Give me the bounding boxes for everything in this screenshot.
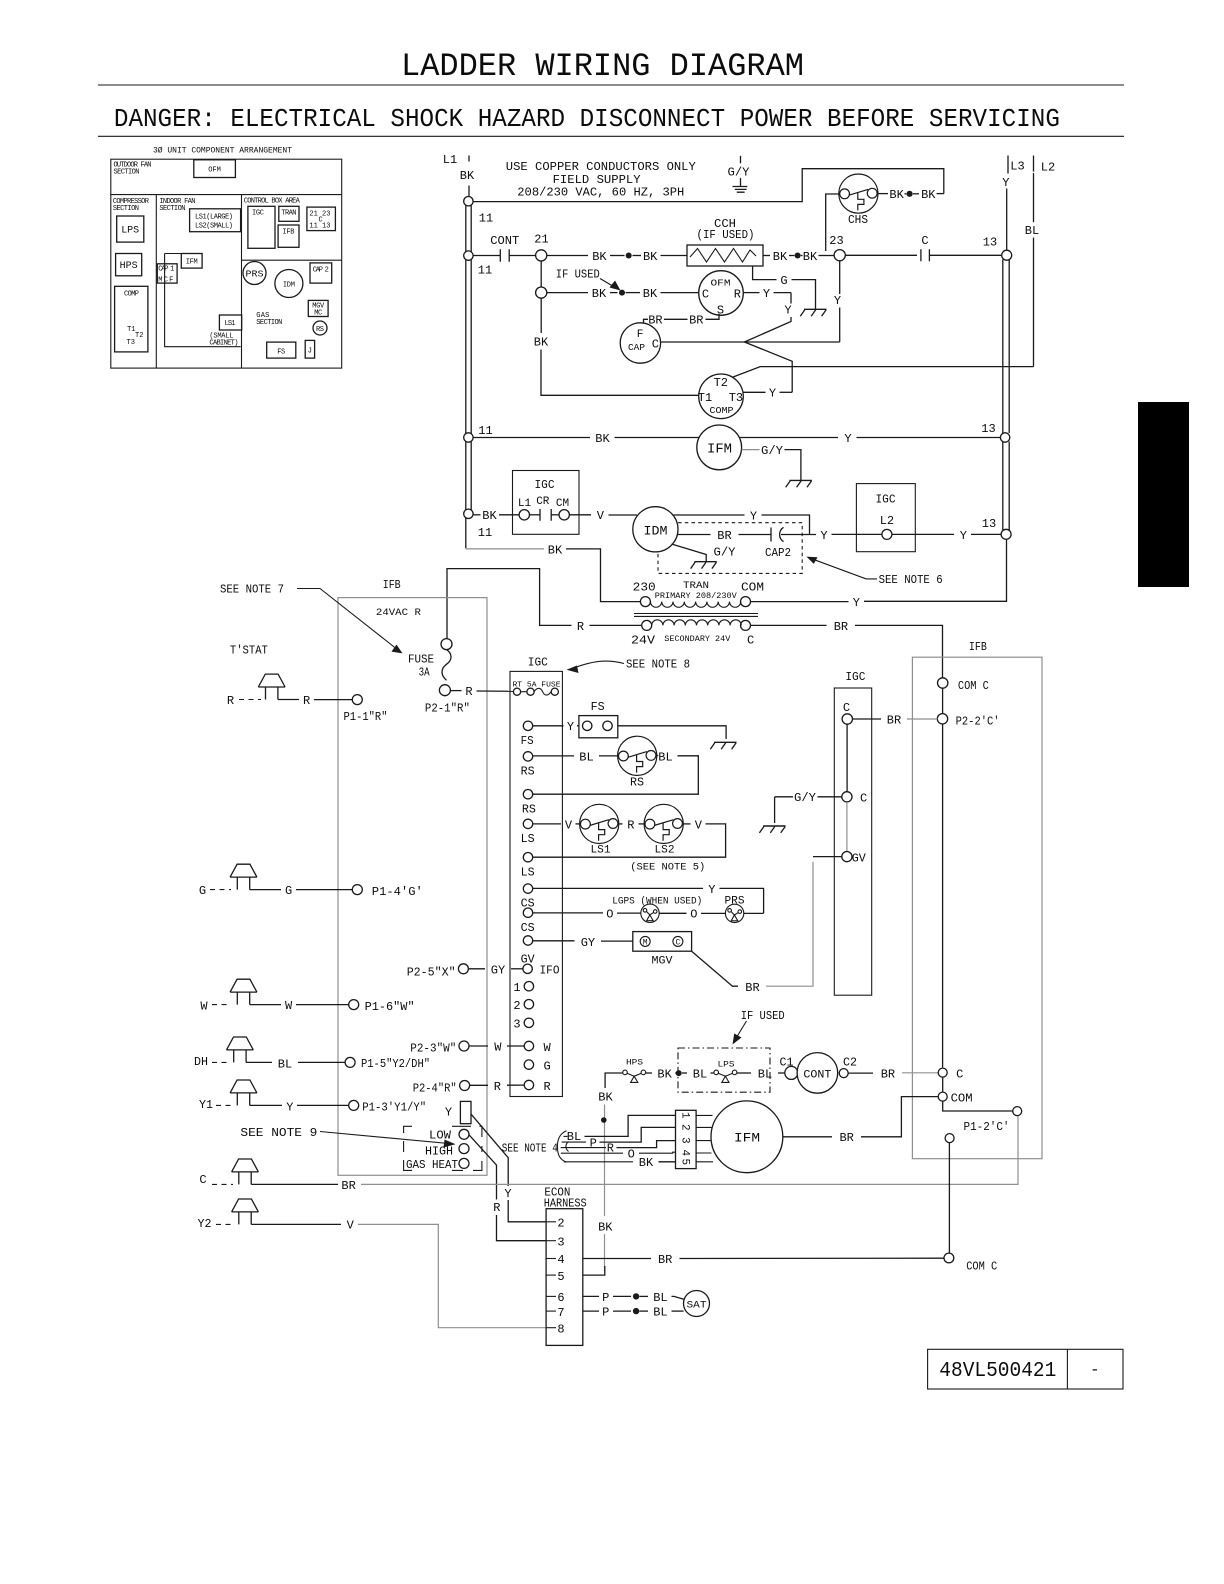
svg-text:2: 2 (679, 1124, 691, 1131)
svg-text:V: V (565, 818, 573, 832)
terminal P1-4"G" (352, 885, 362, 895)
svg-text:208/230 VAC, 60 HZ, 3PH: 208/230 VAC, 60 HZ, 3PH (517, 185, 684, 199)
svg-text:BK: BK (639, 1156, 654, 1170)
svg-text:BK: BK (592, 250, 607, 264)
switch LS1 (580, 804, 619, 843)
wire LS1 to LS2 R (618, 823, 623, 825)
svg-text:13: 13 (982, 517, 996, 531)
svg-text:Y1: Y1 (199, 1098, 213, 1112)
wire harness bundle brace (557, 1131, 566, 1163)
wire C chain down (846, 724, 848, 791)
motor IFM blower (711, 1101, 783, 1173)
svg-text:T3: T3 (729, 391, 743, 405)
svg-text:BK: BK (803, 250, 818, 264)
svg-text:CS: CS (521, 921, 535, 935)
svg-text:C: C (702, 288, 709, 302)
svg-text:M: M (643, 938, 648, 947)
wire CS Y (533, 887, 703, 889)
svg-text:BK: BK (482, 509, 497, 523)
svg-text:BK: BK (657, 1068, 672, 1082)
svg-text:C: C (921, 234, 928, 248)
svg-text:P2-5"X": P2-5"X" (407, 966, 456, 980)
svg-text:TRAN: TRAN (683, 581, 709, 592)
wire Y from node 23 (839, 261, 841, 294)
dashed box CAP2 (658, 523, 802, 574)
svg-text:Y: Y (567, 720, 574, 734)
svg-text:P: P (590, 1136, 597, 1150)
svg-text:IFB: IFB (969, 640, 987, 654)
svg-text:V: V (597, 509, 605, 523)
COMP box (115, 286, 148, 352)
svg-text:6: 6 (557, 1291, 564, 1305)
left rail double (466, 206, 471, 515)
wire L3 down to node 13 (1006, 189, 1008, 251)
wire W (469, 1045, 488, 1047)
svg-text:SECTION: SECTION (113, 205, 139, 213)
svg-text:BK: BK (598, 1221, 613, 1235)
svg-text:COMP: COMP (124, 291, 139, 299)
box IFB left (338, 598, 487, 1176)
relay box IGC L1 CR CM (513, 471, 580, 535)
SECTION: header (98, 48, 1189, 1389)
svg-text:L1: L1 (443, 153, 457, 167)
wire secondary 24V R loop (590, 624, 642, 626)
svg-text:P2-3"W": P2-3"W" (410, 1042, 456, 1056)
terminal P1-2 lower (945, 1134, 954, 1143)
dash-dot box LPS (678, 1048, 770, 1092)
svg-text:F: F (637, 329, 644, 341)
wire harness bundle P (562, 1141, 586, 1143)
svg-text:V: V (695, 818, 703, 832)
blower housing outline (165, 254, 241, 347)
svg-text:W: W (494, 1041, 502, 1055)
svg-text:FUSE: FUSE (408, 653, 434, 667)
svg-text:R: R (494, 1080, 501, 1094)
svg-text:SECTION: SECTION (256, 319, 282, 327)
svg-text:48VL500421: 48VL500421 (939, 1360, 1056, 1383)
terminal LS (523, 819, 532, 828)
svg-text:11: 11 (478, 424, 492, 438)
svg-text:BK: BK (889, 188, 904, 202)
svg-text:G: G (780, 274, 787, 288)
IFM box small (181, 254, 202, 269)
terminal C1 (785, 1066, 798, 1079)
svg-text:5: 5 (679, 1159, 691, 1166)
pin 4 (546, 1258, 556, 1260)
svg-text:C: C (860, 791, 867, 805)
svg-text:G: G (285, 884, 292, 898)
wire node13 down to COM (864, 539, 1007, 601)
svg-text:BK: BK (773, 250, 788, 264)
breaker CHS (839, 174, 878, 213)
capacitor F CAP (620, 323, 660, 363)
FS box small (267, 342, 296, 358)
svg-text:IF USED: IF USED (741, 1009, 785, 1023)
svg-text:G/Y: G/Y (794, 791, 816, 805)
svg-text:HPS: HPS (120, 261, 138, 272)
svg-text:DANGER: ELECTRICAL SHOCK HAZAR: DANGER: ELECTRICAL SHOCK HAZARD DISCONNE… (114, 104, 1060, 134)
svg-text:IGC: IGC (528, 656, 548, 670)
svg-text:1: 1 (513, 981, 520, 995)
pin 6 (546, 1295, 556, 1297)
SECTION: top power (443, 153, 1055, 514)
svg-text:USE COPPER CONDUCTORS ONLY: USE COPPER CONDUCTORS ONLY (506, 160, 696, 174)
svg-text:RS: RS (630, 776, 644, 790)
svg-text:COM: COM (951, 1091, 973, 1105)
wire C to COM (942, 1077, 944, 1092)
wire IDM BR to CAP2 (678, 534, 711, 536)
svg-text:BR: BR (887, 713, 901, 727)
svg-text:2: 2 (557, 1217, 564, 1231)
svg-text:IFB: IFB (283, 229, 295, 237)
svg-text:T2: T2 (135, 332, 143, 340)
wire harness bundle BL (564, 1135, 568, 1137)
svg-text:-: - (1090, 1361, 1100, 1379)
svg-text:COM C: COM C (966, 1260, 997, 1274)
svg-text:3: 3 (557, 1235, 564, 1249)
svg-text:P1-6"W": P1-6"W" (365, 1000, 415, 1014)
svg-text:GAS HEAT: GAS HEAT (406, 1158, 458, 1172)
svg-text:24VAC R: 24VAC R (376, 608, 421, 619)
terminal COM C bottom (944, 1253, 954, 1263)
svg-text:RS: RS (316, 326, 324, 334)
svg-text:SECONDARY 24V: SECONDARY 24V (664, 635, 730, 644)
SECTION: middle (220, 422, 1011, 1175)
svg-text:BR: BR (341, 1179, 355, 1193)
svg-text:PRS: PRS (725, 896, 745, 908)
svg-text:C: C (747, 634, 754, 648)
wire RS BL (533, 755, 574, 757)
svg-text:T2: T2 (714, 376, 728, 390)
wire harness bundle R (561, 1147, 606, 1149)
wire LPS right BL (737, 1072, 751, 1074)
pin 3 (546, 1240, 556, 1242)
node L3 (1007, 156, 1009, 174)
svg-text:IDM: IDM (283, 282, 295, 290)
svg-text:11 13: 11 13 (309, 223, 330, 231)
danger underline (98, 135, 1124, 137)
svg-text:P1-4'G': P1-4'G' (372, 885, 423, 899)
svg-text:Y: Y (750, 509, 757, 523)
compressor COMP (699, 374, 744, 419)
svg-text:CAP 2: CAP 2 (313, 267, 329, 275)
svg-text:BK: BK (534, 336, 549, 350)
svg-text:SECTION: SECTION (159, 205, 185, 213)
connector stubs to IFM (696, 1115, 713, 1161)
wire COM to P1-2 (943, 1101, 1013, 1111)
svg-text:BR: BR (658, 1253, 672, 1267)
svg-text:P1-5"Y2/DH": P1-5"Y2/DH" (361, 1057, 430, 1071)
wire BK from rail to primary (465, 518, 467, 548)
wire pin5 BK (583, 1266, 605, 1275)
dashed box heat stage (404, 1126, 482, 1170)
svg-text:Y: Y (960, 529, 967, 543)
wire harness bundle BK (564, 1161, 633, 1163)
sensor FS box (579, 716, 618, 738)
transformer core (634, 614, 758, 617)
svg-text:IGC: IGC (876, 493, 896, 507)
terminal numbers box (307, 207, 336, 231)
svg-text:BR: BR (717, 529, 731, 543)
terminal R (524, 1080, 533, 1089)
heater CCH (687, 245, 763, 266)
svg-text:3: 3 (679, 1137, 691, 1144)
svg-text:Y: Y (820, 529, 827, 543)
valve MGV box (633, 932, 692, 952)
right rail double lower (1003, 442, 1009, 531)
svg-text:Y: Y (708, 883, 715, 897)
IGC box small (248, 206, 275, 248)
wire C2 BR to C (848, 1072, 873, 1074)
LS1/LS2 box (190, 209, 241, 232)
secondary coil (642, 620, 652, 630)
terminal P2-3"W" (459, 1041, 469, 1051)
terminal P2-2"C" (937, 714, 947, 724)
svg-text:BL: BL (758, 1068, 772, 1082)
svg-text:SEE NOTE 9: SEE NOTE 9 (240, 1126, 317, 1140)
svg-text:C: C (675, 938, 680, 947)
svg-text:IGC: IGC (845, 670, 865, 684)
wire O between (659, 912, 686, 914)
svg-text:T1: T1 (698, 391, 712, 405)
svg-text:R: R (627, 818, 634, 832)
svg-text:CAP 1: CAP 1 (158, 265, 174, 273)
svg-text:(IF USED): (IF USED) (697, 228, 755, 242)
svg-text:3A: 3A (419, 666, 431, 680)
svg-text:LPS: LPS (121, 226, 139, 237)
svg-text:CONT: CONT (490, 234, 519, 248)
svg-text:GY: GY (581, 936, 595, 950)
svg-text:RS: RS (522, 803, 536, 817)
svg-text:LADDER WIRING DIAGRAM: LADDER WIRING DIAGRAM (401, 48, 804, 85)
svg-text:SEE NOTE 6: SEE NOTE 6 (879, 573, 943, 587)
svg-text:BL: BL (693, 1068, 707, 1082)
wire secondary C BR (751, 624, 827, 626)
terminal CS lower (523, 908, 532, 917)
svg-text:Y: Y (504, 1187, 511, 1201)
svg-text:G/Y: G/Y (714, 545, 736, 559)
ground G/Y (759, 826, 785, 833)
svg-text:GV: GV (852, 851, 867, 865)
svg-text:LS1(LARGE): LS1(LARGE) (195, 214, 233, 222)
control/gas divider (242, 259, 342, 261)
svg-text:P1-2'C': P1-2'C' (964, 1120, 1010, 1134)
svg-text:R: R (493, 1201, 500, 1215)
OFM box (194, 160, 236, 178)
ground FS (710, 742, 736, 749)
terminal P1-5"Y2/DH" (345, 1057, 355, 1067)
svg-text:BL: BL (579, 750, 593, 764)
contactor CONT (797, 1053, 838, 1094)
node 11 row1 (464, 251, 473, 260)
svg-text:COM: COM (741, 581, 764, 595)
svg-text:LS: LS (521, 832, 535, 846)
wire CHS left drop (826, 194, 840, 251)
svg-text:P2-1"R": P2-1"R" (425, 701, 470, 715)
LPS box (117, 216, 144, 242)
svg-text:C2: C2 (843, 1056, 857, 1070)
svg-text:7: 7 (557, 1306, 564, 1320)
node 13 row1 (1002, 250, 1012, 260)
svg-text:SEE NOTE 8: SEE NOTE 8 (626, 658, 690, 672)
svg-text:CAP: CAP (628, 343, 645, 353)
node 13 IDM row (1001, 529, 1011, 539)
fuse FUSE 3A (441, 639, 452, 650)
svg-text:IF USED: IF USED (556, 267, 600, 281)
svg-text:G/Y: G/Y (761, 444, 783, 458)
terminal RS lower (523, 790, 532, 799)
wire CM to IDM V (569, 514, 591, 516)
terminal P2-4"R" (460, 1081, 470, 1091)
wire row2 BK (547, 292, 588, 294)
svg-text:LPS: LPS (718, 1061, 735, 1070)
wire IDM Y top (674, 514, 745, 516)
CAP 2 box (310, 263, 332, 283)
switch LGPS (641, 904, 659, 922)
indoor/control divider (241, 195, 243, 369)
svg-text:LS: LS (521, 866, 535, 880)
svg-text:11: 11 (478, 264, 492, 278)
wire HPS left BK drop (605, 1073, 623, 1088)
wire BK drop to compressor (540, 298, 542, 333)
wire G/Y to ground (775, 796, 793, 798)
terminal GV right (842, 852, 852, 862)
terminal P1-6"W" (349, 1000, 359, 1010)
svg-text:P1-1"R": P1-1"R" (344, 710, 388, 724)
svg-text:IGC: IGC (535, 478, 555, 492)
svg-text:DH: DH (194, 1055, 208, 1069)
motor IDM (633, 507, 678, 552)
svg-text:11: 11 (479, 212, 493, 226)
svg-text:BL: BL (278, 1058, 292, 1072)
svg-text:Y: Y (445, 1106, 452, 1120)
terminal 3 (524, 1018, 533, 1027)
title underline (98, 84, 1124, 86)
svg-text:BL: BL (658, 750, 672, 764)
svg-text:L3: L3 (1010, 160, 1024, 174)
box IFB right (912, 657, 1042, 1158)
wire IFM row (473, 437, 590, 439)
svg-text:OFM: OFM (711, 279, 731, 289)
wire L2 to node 13 (892, 533, 954, 535)
wire C rail down (942, 724, 944, 1067)
node L2 (1033, 156, 1035, 172)
CAP 1 box (157, 264, 177, 283)
svg-text:T3: T3 (127, 339, 135, 347)
wire CCH right BK (763, 255, 770, 257)
svg-text:C: C (199, 1173, 206, 1187)
terminal C2 (839, 1069, 848, 1078)
svg-text:Y: Y (763, 287, 770, 301)
wire CAP C run (661, 341, 840, 343)
pin 7 (546, 1310, 556, 1312)
svg-text:G/Y: G/Y (728, 166, 750, 180)
svg-text:P2-2'C': P2-2'C' (956, 715, 1000, 729)
wire LOW to ECON 3 (469, 1135, 497, 1200)
svg-text:R: R (577, 620, 584, 634)
pin 2 (546, 1221, 556, 1223)
compressor/indoor divider (155, 195, 157, 369)
wire COM C to P2-2 (942, 688, 944, 713)
svg-text:O: O (690, 908, 697, 922)
svg-text:21: 21 (534, 233, 548, 247)
switch RS (618, 736, 657, 775)
svg-text:11: 11 (478, 526, 492, 540)
box IGC control (510, 671, 562, 1096)
svg-text:IFM: IFM (707, 442, 732, 458)
arrangement outer box (111, 159, 342, 368)
svg-text:CABINET): CABINET) (209, 340, 238, 348)
svg-text:3Ø UNIT COMPONENT ARRANGEMENT: 3Ø UNIT COMPONENT ARRANGEMENT (153, 147, 292, 156)
SECTION: bottom (194, 864, 1022, 1345)
node 21 drop to row2 (540, 261, 542, 287)
node 23 (834, 250, 845, 261)
earth ground G/Y (740, 156, 742, 164)
svg-text:CM: CM (556, 498, 569, 510)
svg-text:LOW: LOW (429, 1129, 452, 1143)
svg-text:M C F: M C F (158, 277, 173, 285)
svg-text:G: G (199, 884, 206, 898)
ground OFM (800, 309, 826, 316)
svg-text:IGC: IGC (252, 210, 264, 218)
terminal P1-1"R" (352, 695, 362, 705)
pin 5 (546, 1274, 556, 1276)
svg-text:FS: FS (277, 348, 285, 356)
svg-text:L1: L1 (518, 498, 532, 510)
wire BL to LPS (682, 1072, 687, 1074)
svg-text:BK: BK (598, 1091, 613, 1105)
wire row1 BK to CCH (547, 255, 588, 257)
wire IFM BR to COM (783, 1136, 832, 1138)
terminal W (524, 1041, 533, 1050)
terminal 1 (524, 982, 533, 991)
svg-text:BR: BR (881, 1068, 895, 1082)
wire IDM G/Y ground diagonal (672, 544, 707, 562)
SECTION: control (407, 640, 1042, 1159)
HPS box (116, 254, 142, 276)
node 11 IGC row (464, 509, 473, 518)
svg-text:C: C (843, 701, 850, 715)
contact C (845, 254, 917, 256)
wire C to BR to P2-2 (853, 718, 882, 720)
terminal C lower (842, 792, 852, 802)
terminal P1-3"Y1/Y" (349, 1100, 359, 1110)
svg-text:CHS: CHS (848, 213, 868, 227)
svg-text:C: C (956, 1068, 963, 1082)
svg-text:SEE NOTE 4: SEE NOTE 4 (502, 1141, 558, 1155)
J box small (305, 340, 314, 358)
connector ECON harness box (546, 1209, 583, 1346)
pin 8 (546, 1327, 556, 1329)
svg-text:23: 23 (829, 234, 843, 248)
wire PRS to Y riser (744, 912, 764, 914)
wire L2 to compressor T2 (730, 367, 1034, 379)
wire FS to flame sensor (533, 725, 564, 727)
wire fuse to IGC R (450, 690, 461, 692)
svg-text:RS: RS (521, 765, 535, 779)
wire GV left (813, 856, 842, 858)
terminal P2-5"X" (458, 964, 468, 974)
wire LS2 V loop (682, 823, 690, 825)
svg-text:4: 4 (679, 1150, 691, 1157)
svg-text:13: 13 (983, 236, 997, 250)
page tab black marker (1138, 402, 1189, 587)
svg-text:CR: CR (536, 496, 550, 508)
svg-text:OFM: OFM (208, 167, 221, 175)
MGV MC box (308, 300, 328, 316)
svg-text:W: W (200, 999, 208, 1013)
svg-text:COM C: COM C (958, 679, 989, 693)
